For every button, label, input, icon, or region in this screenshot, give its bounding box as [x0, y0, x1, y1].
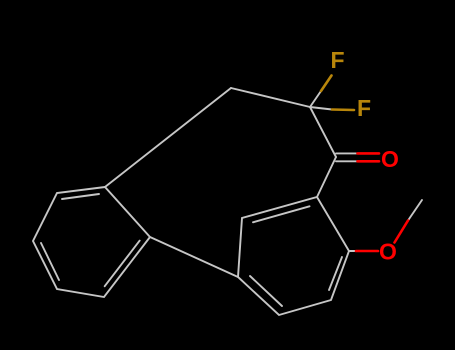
- right ring inner line B-C: [329, 257, 342, 290]
- left ring inner line P-T: [62, 194, 99, 199]
- left benzene ring outline: [33, 187, 150, 297]
- wire: gold half bond to F1: [321, 76, 332, 92]
- left ring inner line B2-Q: [105, 241, 140, 287]
- wire: carbonyl-ring A: [317, 157, 336, 197]
- wire: ring B to OMe oxygen white half: [349, 250, 356, 252]
- svg-text:F: F: [330, 47, 344, 73]
- wire: CF2-carbonyl: [310, 107, 336, 157]
- wire: CF2 to F2 white half: [310, 107, 332, 110]
- wire: benzylic bridge P-Apex: [105, 88, 231, 187]
- wire: OMe O-ring bond red half: [356, 250, 378, 253]
- wire: Apex-CF2: [231, 88, 310, 107]
- wire: C=O lower line red half: [358, 160, 380, 163]
- left ring inner line L-BL: [41, 243, 59, 280]
- right benzene ring outline: [238, 197, 349, 315]
- wire: C=O upper line white half: [336, 152, 358, 154]
- wire: C=O upper line red half: [358, 152, 380, 155]
- svg-text:F: F: [357, 95, 371, 121]
- right ring inner line F-A: [253, 206, 310, 222]
- svg-text:O: O: [379, 239, 397, 265]
- right ring inner line D-E: [250, 276, 282, 306]
- wire: OMe O-CH3 bond red half: [395, 221, 409, 243]
- svg-text:O: O: [381, 146, 399, 172]
- wire: CF2 to F1 white half: [310, 91, 321, 107]
- wire: biaryl bond Q-E: [150, 237, 238, 277]
- wire: C=O lower line white half: [336, 160, 358, 162]
- wire: OMe methyl white half: [408, 200, 422, 221]
- wire: gold half bond to F2: [332, 108, 354, 111]
